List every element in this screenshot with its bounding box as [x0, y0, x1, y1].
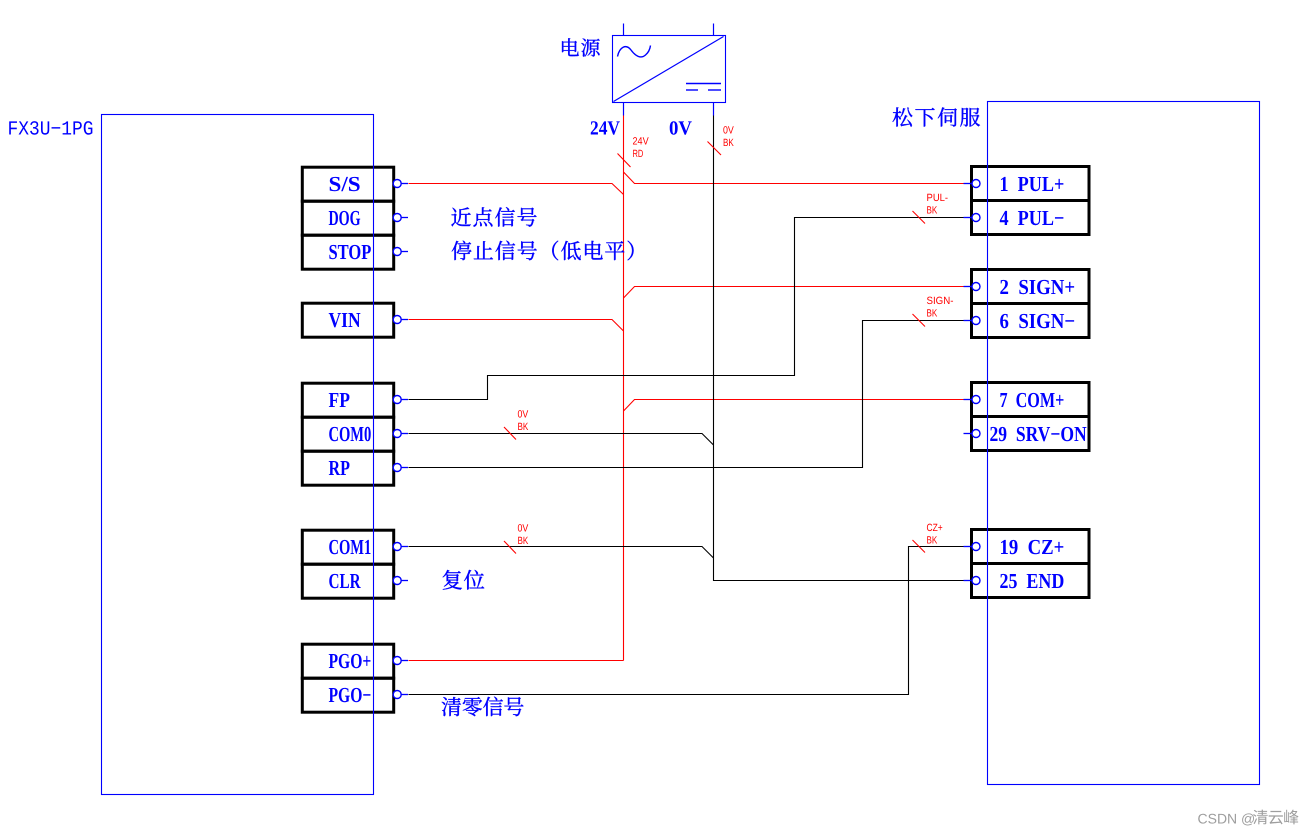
svg-text:CLR: CLR [329, 569, 361, 593]
svg-text:CZ+: CZ+ [927, 522, 943, 534]
wire RP to 6 SIGN- (black) [409, 321, 968, 468]
svg-text:0V: 0V [518, 523, 529, 535]
svg-text:6 SIGN−: 6 SIGN− [1000, 309, 1076, 333]
power supply 电源 [613, 36, 726, 103]
terminal 6 SIGN- [964, 304, 1090, 338]
wire 0V bus vertical then to 25 END (black) [714, 116, 968, 581]
terminal 2 SIGN+ [964, 270, 1090, 304]
svg-text:COM1: COM1 [329, 535, 372, 559]
wire FP to 4 PUL- (black) [409, 218, 968, 400]
terminal 29 SRV-ON [964, 417, 1090, 451]
wire label SIGN- BK [913, 295, 954, 327]
terminal COM1 [302, 530, 408, 564]
wire label CZ+ BK [913, 522, 943, 553]
svg-text:2 SIGN+: 2 SIGN+ [1000, 275, 1076, 299]
svg-text:PGO−: PGO− [329, 683, 372, 707]
terminal CLR [302, 564, 408, 598]
svg-text:S/S: S/S [329, 172, 361, 196]
terminal PGO+ [302, 644, 408, 678]
wire COM1 to 0V bus (black) [409, 547, 714, 559]
terminal 25 END [964, 564, 1090, 598]
wire VIN to 24V bus (red) [409, 320, 624, 332]
svg-text:BK: BK [927, 205, 938, 217]
svg-text:FP: FP [329, 388, 350, 412]
svg-text:7 COM+: 7 COM+ [1000, 388, 1065, 412]
svg-text:STOP: STOP [329, 240, 372, 264]
svg-text:4 PUL−: 4 PUL− [1000, 206, 1065, 230]
terminal 1 PUL+ [964, 167, 1090, 201]
svg-text:VIN: VIN [329, 308, 362, 332]
label 停止信号（低电平） (stop signal, low level) [452, 241, 634, 261]
svg-text:PUL-: PUL- [927, 192, 949, 204]
svg-text:DOG: DOG [329, 206, 361, 230]
svg-text:PGO+: PGO+ [329, 649, 372, 673]
label 电源 [562, 38, 600, 56]
svg-text:BK: BK [723, 137, 734, 149]
label 复位 (reset) [443, 570, 485, 590]
svg-text:25 END: 25 END [1000, 569, 1065, 593]
PLC module box FX3U-1PG [102, 115, 374, 795]
svg-text:29 SRV−ON: 29 SRV−ON [990, 422, 1088, 446]
terminal STOP [302, 235, 408, 269]
svg-text:BK: BK [518, 535, 529, 547]
svg-text:19 CZ+: 19 CZ+ [1000, 535, 1065, 559]
svg-text:SIGN-: SIGN- [927, 295, 954, 307]
terminal COM0 [302, 417, 408, 451]
wire label 0V BK on 0V bus [708, 125, 734, 156]
svg-text:BK: BK [927, 308, 938, 320]
wire power supply 24V output stub (blue) [623, 103, 625, 116]
wire power supply top stub left [623, 24, 625, 36]
svg-text:0V: 0V [518, 409, 529, 421]
wire 24V bus branch to 7 COM+ (red) [624, 400, 968, 412]
svg-text:BK: BK [927, 535, 938, 547]
terminal FP [302, 383, 408, 417]
label 松下伺服 [893, 107, 981, 126]
terminal PGO- [302, 678, 408, 712]
wire label 0V BK on COM1 wire [504, 523, 528, 554]
svg-text:BK: BK [518, 421, 529, 433]
servo drive box 松下伺服 [988, 102, 1260, 785]
wire label 0V BK on COM0 wire [504, 409, 528, 440]
terminal 19 CZ+ [964, 530, 1090, 564]
svg-text:0V: 0V [723, 125, 734, 137]
terminal DOG [302, 201, 408, 235]
label 清零信号 (clear-to-zero signal) [442, 697, 524, 717]
terminal 7 COM+ [964, 383, 1090, 417]
terminal RP [302, 451, 408, 485]
wire PGO- to 19 CZ+ (black) [409, 547, 968, 695]
terminal S/S [302, 167, 408, 201]
svg-text:CSDN @: CSDN @ [1198, 811, 1256, 827]
svg-text:24V: 24V [590, 118, 620, 140]
watermark CSDN @清云峰 [1198, 810, 1299, 827]
svg-text:0V: 0V [669, 118, 693, 140]
wire COM0 to 0V bus (black) [409, 434, 714, 446]
svg-text:24V: 24V [633, 136, 649, 148]
terminal 4 PUL- [964, 201, 1090, 235]
terminal VIN [302, 303, 408, 337]
label 近点信号 (near-point signal) [451, 207, 536, 226]
wire PGO+ to 24V bus (red) [409, 660, 624, 662]
wire 24V bus branch to 1 PUL+ (red) [624, 172, 968, 184]
wire 24V bus branch to 2 SIGN+ (red) [624, 287, 968, 299]
svg-text:RP: RP [329, 456, 350, 480]
wire label 24V RD on 24V bus [618, 136, 649, 168]
wire power supply 0V output stub (blue) [713, 103, 715, 116]
svg-text:FX3U−1PG: FX3U−1PG [8, 119, 94, 142]
wire label PUL- BK [913, 192, 949, 224]
wire power supply top stub right [713, 24, 715, 36]
svg-text:RD: RD [633, 148, 644, 160]
svg-text:1 PUL+: 1 PUL+ [1000, 172, 1065, 196]
svg-text:COM0: COM0 [329, 422, 372, 446]
wire S/S to 24V bus (red) [409, 184, 624, 195]
wire 24V bus vertical (red) [623, 116, 625, 661]
